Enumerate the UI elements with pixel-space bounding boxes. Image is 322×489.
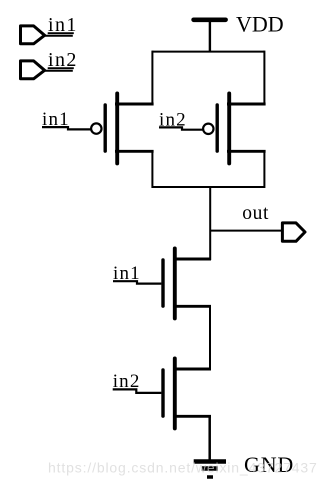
svg-text:out: out: [242, 203, 269, 224]
wire in1 to M1 gate: [42, 127, 91, 129]
wire in2 to M2 gate: [159, 127, 203, 129]
svg-text:https://blog.csdn.net/weixin_4: https://blog.csdn.net/weixin_43727437: [48, 459, 318, 475]
wire in2 to M4 gate: [113, 389, 162, 393]
wire M1 drain down: [151, 151, 153, 188]
input port in2: [21, 61, 45, 79]
wire VDD rail: [152, 51, 264, 53]
pmos M2: [203, 94, 266, 164]
wire output node rail: [152, 186, 265, 188]
wire from in1 port: [44, 35, 73, 37]
wire M3 source to M4 drain: [209, 306, 211, 369]
wire M2 source to rail: [263, 51, 265, 104]
wire M1 source to rail: [151, 51, 153, 104]
wire M4 source to ground: [208, 416, 211, 459]
label in1 (input port): [48, 14, 78, 36]
wire to out port: [210, 230, 281, 232]
output port out: [282, 223, 305, 241]
nmos M3: [163, 249, 211, 319]
wire in1 to M3 gate: [113, 281, 161, 283]
wire M2 drain down: [263, 151, 265, 188]
wire output node vertical: [209, 186, 211, 260]
label in2 (input port): [48, 49, 78, 71]
svg-text:VDD: VDD: [236, 12, 284, 37]
ground: [194, 462, 226, 478]
nmos M4: [163, 359, 211, 429]
wire from in2 port: [44, 70, 73, 72]
input port in1: [21, 26, 45, 44]
pmos M1: [91, 94, 154, 164]
power symbol VDD: [194, 20, 226, 51]
